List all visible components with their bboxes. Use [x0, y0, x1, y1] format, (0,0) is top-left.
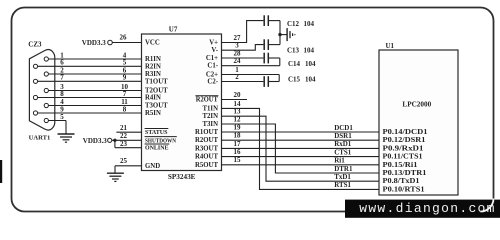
- svg-text:P0.12/DSR1: P0.12/DSR1: [383, 137, 427, 144]
- wire CZ3 pin 9 to U7 pin 8: [38, 105, 142, 113]
- svg-text:18: 18: [234, 132, 242, 140]
- svg-text:17: 17: [234, 140, 242, 148]
- svg-text:CZ3: CZ3: [28, 41, 42, 49]
- svg-text:P0.11/CTS1: P0.11/CTS1: [383, 154, 424, 161]
- svg-text:14: 14: [234, 100, 242, 108]
- svg-text:C1-: C1-: [207, 63, 218, 70]
- svg-text:8: 8: [123, 105, 127, 113]
- wire C2+ pin 1: [222, 66, 280, 82]
- svg-text:P0.13/DTR1: P0.13/DTR1: [383, 170, 428, 177]
- svg-text:C15: C15: [288, 75, 301, 83]
- wire T2IN pin 13 to TxD1: [222, 108, 380, 182]
- wire CZ3 pin 2 to U7 pin 6: [48, 66, 141, 74]
- svg-text:VDD3.3: VDD3.3: [83, 137, 107, 145]
- U7 pin name R2OUT right: [195, 96, 218, 104]
- svg-text:22: 22: [120, 132, 128, 140]
- svg-text:T1OUT: T1OUT: [145, 78, 168, 85]
- wire T1IN pin 14 to RTS1: [222, 100, 380, 190]
- svg-text:SP3243E: SP3243E: [168, 173, 196, 181]
- wire STATUS stub pin 21: [116, 124, 141, 132]
- svg-text:R1IN: R1IN: [145, 56, 161, 63]
- ground symbol for CZ3 pin 5: [58, 134, 75, 142]
- svg-text:RxD1: RxD1: [334, 140, 352, 148]
- svg-text:26: 26: [120, 34, 128, 42]
- svg-text:P0.15/Ri1: P0.15/Ri1: [383, 162, 419, 169]
- svg-text:9: 9: [123, 74, 127, 82]
- svg-text:R4IN: R4IN: [145, 95, 161, 102]
- svg-text:T2IN: T2IN: [203, 113, 219, 120]
- wire pin 15 to Ri1: [222, 156, 380, 165]
- svg-text:104: 104: [305, 60, 316, 68]
- svg-text:R5OUT: R5OUT: [195, 162, 219, 169]
- svg-text:U7: U7: [169, 25, 178, 33]
- svg-text:C13: C13: [287, 46, 300, 54]
- svg-text:12: 12: [234, 115, 242, 123]
- wire C2- pin 2: [222, 73, 264, 82]
- wire C1- pin 24: [222, 57, 280, 66]
- ground symbol for U7 GND: [107, 173, 124, 181]
- svg-text:104: 104: [304, 46, 315, 54]
- connector pin 8 circle: [33, 95, 37, 99]
- wire V- pin 3 to C13: [222, 42, 264, 51]
- svg-text:R1OUT: R1OUT: [195, 129, 219, 136]
- svg-text:R3OUT: R3OUT: [195, 145, 219, 152]
- svg-text:UART1: UART1: [29, 135, 51, 142]
- svg-text:R2OUT: R2OUT: [196, 97, 218, 104]
- svg-text:V+: V+: [209, 40, 218, 47]
- svg-text:24: 24: [234, 57, 242, 65]
- wire R2OUTB pin 20 stub: [222, 91, 248, 100]
- svg-text:DTR1: DTR1: [334, 165, 353, 173]
- capacitor C14: [264, 53, 316, 68]
- wire pin 19 to DCD1: [222, 123, 380, 132]
- connector pin 9 circle: [33, 111, 37, 115]
- left edge scan mark: [0, 160, 2, 183]
- wire CZ3 pin 3 to U7 pin 10: [48, 83, 141, 91]
- svg-text:R3IN: R3IN: [145, 71, 161, 78]
- svg-text:TxD1: TxD1: [334, 173, 351, 181]
- wire C1+ pin 28: [222, 49, 264, 58]
- svg-text:T3IN: T3IN: [203, 121, 219, 128]
- wire CZ3 pin 5 to ground: [48, 113, 66, 134]
- svg-text:C1+: C1+: [206, 55, 218, 62]
- svg-text:7: 7: [123, 90, 127, 98]
- node C12/C13 common: [278, 21, 286, 45]
- svg-text:DSR1: DSR1: [334, 132, 352, 140]
- svg-text:8: 8: [60, 90, 64, 98]
- svg-text:VCC: VCC: [145, 40, 160, 47]
- capacitor C12: [264, 15, 314, 28]
- svg-text:GND: GND: [145, 163, 160, 170]
- wire T3IN pin 12 to DTR1: [222, 115, 380, 173]
- svg-text:20: 20: [234, 91, 242, 99]
- svg-text:R2IN: R2IN: [145, 63, 161, 70]
- svg-text:T1IN: T1IN: [203, 105, 219, 112]
- svg-text:C12: C12: [287, 20, 300, 28]
- wire CZ3 pin 6 to U7 pin 5: [38, 59, 142, 67]
- svg-text:LPC2000: LPC2000: [402, 101, 431, 109]
- svg-text:V-: V-: [211, 47, 218, 54]
- svg-text:Ri1: Ri1: [334, 157, 345, 165]
- svg-text:15: 15: [234, 156, 242, 164]
- power VDD3.3 to SHUTDOWN/ONLINE: [83, 137, 142, 148]
- svg-text:R4OUT: R4OUT: [195, 154, 219, 161]
- svg-text:RTS1: RTS1: [334, 181, 351, 189]
- svg-text:C2+: C2+: [206, 72, 218, 79]
- svg-text:2: 2: [235, 73, 239, 81]
- wire V+ pin 27 to C12: [222, 21, 264, 43]
- svg-text:P0.10/RTS1: P0.10/RTS1: [383, 186, 426, 193]
- wire CZ3 pin 8 to U7 pin 7: [38, 90, 142, 98]
- U7 pin name ONLINE: [145, 144, 170, 152]
- connector pin 6 circle: [33, 64, 37, 68]
- svg-text:5: 5: [60, 113, 64, 121]
- wire CZ3 pin 4 to U7 pin 11: [48, 98, 141, 106]
- connector pin 5 circle: [44, 118, 48, 122]
- svg-text:SHUTDOWN: SHUTDOWN: [145, 137, 176, 144]
- svg-text:3: 3: [235, 42, 239, 50]
- svg-text:104: 104: [305, 75, 316, 83]
- power VDD3.3 (VCC pin 26): [82, 34, 142, 47]
- svg-text:16: 16: [234, 148, 242, 156]
- watermark bar www.diangon.com: [345, 199, 500, 218]
- svg-text:P0.8/TxD1: P0.8/TxD1: [383, 178, 421, 185]
- svg-text:C14: C14: [288, 60, 301, 68]
- svg-text:U1: U1: [386, 42, 395, 50]
- IC U1 LPC2000 box: [379, 42, 458, 195]
- capacitor C15: [264, 75, 316, 87]
- svg-text:R2OUT: R2OUT: [195, 137, 219, 144]
- connector pin 3 circle: [44, 88, 48, 92]
- svg-text:19: 19: [234, 123, 242, 131]
- svg-text:www.diangon.com: www.diangon.com: [359, 201, 496, 216]
- svg-text:21: 21: [120, 124, 128, 132]
- wire pin 18 to DSR1: [222, 132, 380, 141]
- svg-text:23: 23: [120, 140, 128, 148]
- connector pin 2 circle: [44, 72, 48, 76]
- svg-text:CTS1: CTS1: [334, 148, 352, 156]
- connector CZ3 body: [29, 50, 54, 131]
- svg-text:STATUS: STATUS: [145, 129, 168, 136]
- svg-text:T3OUT: T3OUT: [145, 103, 168, 110]
- svg-text:DCD1: DCD1: [334, 124, 353, 132]
- svg-text:VDD3.3: VDD3.3: [82, 39, 106, 47]
- svg-text:R5IN: R5IN: [145, 110, 161, 117]
- svg-text:P0.9/RxD1: P0.9/RxD1: [383, 145, 425, 152]
- wire pin 16 to CTS1: [222, 148, 380, 157]
- connector pin 1 circle: [44, 57, 48, 61]
- svg-text:7: 7: [60, 74, 64, 82]
- svg-text:25: 25: [120, 157, 128, 165]
- wire GND pin 25: [115, 157, 142, 173]
- op IC U7 SP3243E box: [142, 25, 222, 181]
- connector pin 7 circle: [33, 79, 37, 83]
- svg-text:104: 104: [304, 20, 315, 28]
- wire CZ3 pin 7 to U7 pin 9: [38, 74, 142, 82]
- svg-text:13: 13: [234, 108, 242, 116]
- wire CZ3 pin 1 to U7 pin 4: [48, 51, 141, 59]
- connector pin 4 circle: [44, 103, 48, 107]
- U7 pin name SHUTDOWN: [145, 137, 177, 145]
- svg-text:T2OUT: T2OUT: [145, 88, 168, 95]
- U7 pin name STATUS: [145, 129, 169, 137]
- svg-text:C2-: C2-: [207, 79, 218, 86]
- capacitor C13: [264, 39, 314, 54]
- wire pin 17 to RxD1: [222, 140, 380, 149]
- svg-text:27: 27: [234, 34, 242, 42]
- svg-text:P0.14/DCD1: P0.14/DCD1: [383, 129, 429, 136]
- svg-text:ONLINE: ONLINE: [145, 145, 169, 152]
- ground symbol rotated at C12/C13: [287, 28, 295, 41]
